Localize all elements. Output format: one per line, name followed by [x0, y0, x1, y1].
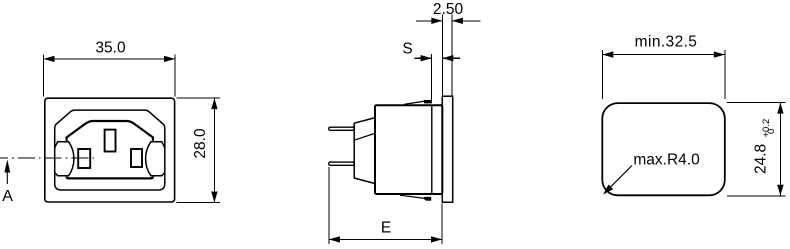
svg-text:A: A [2, 188, 13, 205]
svg-text:E: E [381, 220, 391, 237]
svg-text:S: S [402, 40, 412, 57]
svg-text:min.32.5: min.32.5 [635, 34, 698, 51]
svg-text:35.0: 35.0 [95, 40, 126, 57]
svg-text:max.R4.0: max.R4.0 [633, 152, 700, 169]
svg-text:24.8: 24.8 [753, 144, 770, 174]
svg-text:28.0: 28.0 [192, 128, 209, 159]
svg-text:2.50: 2.50 [433, 1, 464, 18]
svg-text:0: 0 [766, 129, 777, 134]
